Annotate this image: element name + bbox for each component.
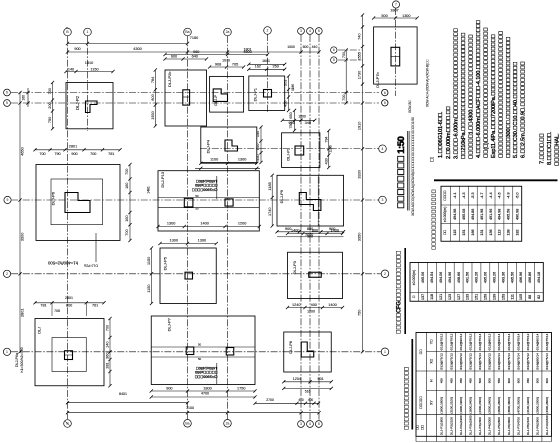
footing DLJ-P9 inner line (317, 175, 319, 226)
svg-text:7: 7 (395, 3, 397, 7)
axis grid vertical lines (68, 8, 396, 420)
axis bubble top 2 (84, 28, 92, 36)
footing DLJ-P7 column A (186, 347, 194, 355)
svg-text:1: 1 (87, 30, 89, 34)
svg-text:1150: 1150 (147, 285, 151, 293)
svg-text:495.06: 495.06 (421, 272, 425, 283)
svg-text:DLJ-P5(2600: DLJ-P5(2600 (497, 417, 501, 436)
callout h1=400/h2=500 (47, 233, 97, 268)
svg-text:2: 2 (6, 272, 8, 276)
svg-text:650: 650 (289, 112, 293, 118)
svg-text:901: 901 (317, 377, 323, 381)
svg-text:908: 908 (215, 63, 221, 67)
svg-text:(4700,3300): (4700,3300) (516, 397, 520, 414)
svg-text:XCW-B: XCW-B (408, 99, 412, 113)
svg-text:790: 790 (54, 152, 60, 156)
svg-text:2a: 2a (226, 422, 230, 426)
svg-text:3330: 3330 (357, 170, 361, 178)
footing DLJ-P5a column (213, 89, 227, 102)
svg-text:3: 3 (382, 198, 384, 202)
footing DLJ-P1b label (287, 148, 291, 161)
svg-text:700: 700 (39, 152, 45, 156)
svg-text:1: 1 (384, 350, 386, 354)
svg-text:1750: 1750 (237, 386, 245, 390)
svg-text:700: 700 (125, 229, 129, 235)
svg-text:88: 88 (528, 295, 532, 299)
footing DLJ-P3 outline (288, 252, 343, 298)
svg-text:4800: 4800 (243, 50, 251, 54)
svg-text:Φ12@75/12: Φ12@75/12 (468, 333, 472, 350)
svg-text:(1900,1900): (1900,1900) (459, 397, 463, 414)
svg-text:4: 4 (309, 29, 311, 33)
svg-text:-4.4: -4.4 (489, 192, 493, 198)
svg-text:(2000,2400): (2000,2400) (488, 397, 492, 414)
svg-text:-5.3: -5.3 (471, 192, 475, 198)
footing DLJ-P7b column (391, 47, 400, 66)
axis bubble top right (392, 1, 399, 8)
footing DLJ-P8 column (301, 342, 314, 357)
footing DLJ-P6 label (51, 191, 56, 205)
svg-text:160: 160 (125, 215, 129, 221)
footing DLJ-P1 column (264, 90, 272, 98)
svg-text:491.96: 491.96 (489, 209, 493, 220)
svg-text::  (419, 396, 423, 409)
footing DLJ-P10 small dims (195, 194, 199, 211)
svg-text::  (416, 424, 420, 430)
svg-text:500: 500 (488, 378, 492, 383)
svg-text:2801: 2801 (20, 309, 24, 317)
svg-text:1300: 1300 (402, 14, 410, 18)
footing DLJ-P6a side note (15, 347, 24, 372)
footing DLJ-P6 outline (36, 165, 120, 241)
svg-text:(2600,2600): (2600,2600) (497, 397, 501, 414)
svg-text:781: 781 (40, 304, 46, 308)
footing DLJ-P1 label (253, 87, 258, 101)
svg-text:496.96: 496.96 (519, 272, 523, 283)
svg-text:550: 550 (497, 378, 501, 383)
svg-text:137: 137 (421, 294, 425, 300)
svg-text:DLJ-P: DLJ-P (214, 95, 218, 106)
svg-text:Φ12@75/12: Φ12@75/12 (449, 333, 453, 350)
footing DLJ-P7 pit note (194, 363, 217, 384)
svg-text:133: 133 (466, 294, 470, 300)
svg-text:1: 1 (6, 350, 8, 354)
svg-text:1400: 1400 (200, 221, 208, 225)
footing DLJ-P2b column (183, 90, 190, 105)
axis bubble right pair 65 (331, 47, 337, 63)
svg-text:9: 9 (7, 198, 9, 202)
svg-text:450: 450 (468, 378, 472, 383)
svg-text:7180: 7180 (190, 36, 198, 40)
svg-text:CFG900: CFG900 (194, 375, 217, 379)
svg-text:750: 750 (289, 122, 293, 128)
svg-text:151: 151 (475, 294, 479, 300)
svg-text:Φ12@75/12: Φ12@75/12 (449, 353, 453, 370)
svg-text:DLJ-P7: DLJ-P7 (167, 317, 172, 331)
svg-text:4650: 4650 (20, 147, 24, 155)
footing DLJ-P6a column (65, 351, 73, 360)
footing DLJ-P8 label (289, 341, 293, 354)
svg-text:600: 600 (516, 378, 520, 383)
axis bubble right pair 65b (382, 89, 388, 106)
svg-text:450: 450 (526, 378, 530, 383)
svg-text:1450x1450: 1450x1450 (196, 366, 218, 370)
svg-text:495.58: 495.58 (507, 209, 511, 220)
footing DLJ-P1b outline (282, 133, 320, 168)
svg-text:DLJ-P9(2900: DLJ-P9(2900 (536, 417, 540, 436)
svg-text:150: 150 (256, 131, 260, 137)
svg-text:1400: 1400 (331, 228, 339, 232)
svg-text:1300: 1300 (238, 157, 246, 161)
svg-text:123: 123 (448, 294, 452, 300)
svg-text:705: 705 (232, 63, 238, 67)
svg-text:DLJ-P7(4700: DLJ-P7(4700 (516, 417, 520, 436)
left dim chain outer (18, 91, 24, 354)
svg-text:4300: 4300 (133, 47, 141, 51)
svg-text:6.2.5m.0.9.: 6.2.5m.0.9. (521, 61, 527, 158)
svg-text:Φ12@75/12: Φ12@75/12 (526, 333, 530, 350)
svg-text:Φ14@90/14: Φ14@90/14 (497, 353, 501, 370)
left dim chain inner (22, 88, 30, 107)
svg-text:Φ12@75/12: Φ12@75/12 (440, 353, 444, 370)
footing DLJ-P7 outline (151, 316, 255, 385)
plan title (396, 117, 415, 216)
svg-text:700: 700 (342, 95, 346, 101)
bottom dim chain 2 (66, 398, 321, 414)
footing DLJ-P6a inner (52, 338, 86, 372)
svg-text:340: 340 (305, 121, 311, 125)
svg-text:Φ12@90/12: Φ12@90/12 (459, 333, 463, 350)
table A grid and data (441, 186, 522, 241)
svg-text:1070: 1070 (222, 59, 230, 63)
svg-text:111: 111 (510, 294, 514, 300)
svg-text:2801: 2801 (65, 296, 73, 300)
footing DLJ-P6 inner (51, 179, 103, 225)
svg-text:450: 450 (459, 378, 463, 383)
svg-text:3: 3 (300, 29, 302, 33)
footing DLJ-P9 dim left (268, 174, 274, 228)
svg-text:DLJ-P6: DLJ-P6 (51, 191, 56, 205)
svg-text:166: 166 (471, 229, 475, 235)
svg-text:4: 4 (309, 422, 311, 426)
svg-text:600: 600 (256, 144, 260, 150)
svg-text:495.06: 495.06 (484, 272, 488, 283)
svg-text:160: 160 (125, 183, 129, 189)
svg-text:494.18: 494.18 (537, 272, 541, 283)
svg-text:Φ14@75/14: Φ14@75/14 (478, 333, 482, 350)
svg-text:Φ14@75/14: Φ14@75/14 (507, 333, 511, 350)
svg-text:300.: 300. (506, 37, 512, 158)
svg-text:700: 700 (106, 325, 110, 331)
svg-text:2700: 2700 (266, 398, 274, 402)
axis bubble left 9 (4, 196, 11, 203)
footing DLJ-P8 dims below (253, 377, 332, 405)
svg-text:151: 151 (462, 229, 466, 235)
svg-text:Φ14@75/14: Φ14@75/14 (545, 333, 549, 350)
svg-text:X: X (430, 358, 434, 363)
svg-text:1700: 1700 (307, 310, 315, 314)
svg-text:HAL.: HAL. (554, 133, 560, 166)
svg-text::: : (430, 156, 436, 162)
axis bubble top 3 (184, 28, 192, 36)
svg-text:DLJ-P3: DLJ-P3 (292, 260, 297, 274)
axis bubble left C (4, 89, 11, 96)
svg-text:1186: 1186 (329, 145, 333, 152)
footing DLJ-P4 right chain (256, 125, 262, 164)
footing DLJ-P7 dim below (150, 386, 257, 398)
footing DLJ-P2 label (75, 95, 80, 110)
svg-text:2: 2 (384, 272, 386, 276)
svg-text:1400: 1400 (328, 303, 336, 307)
axis bubble bottom 1 (64, 420, 72, 428)
axis bubble bottom trio (298, 421, 323, 428)
svg-text:Φ14@75/14: Φ14@75/14 (478, 353, 482, 370)
svg-text:DLJ-P7b: DLJ-P7b (375, 71, 380, 87)
svg-text:494.98: 494.98 (498, 209, 502, 220)
svg-text:Φ14@90/14: Φ14@90/14 (497, 333, 501, 350)
svg-text:400: 400 (298, 398, 304, 402)
svg-text:8401: 8401 (119, 392, 127, 396)
svg-text:200: 200 (48, 102, 52, 108)
footing DLJ-P10 outline (158, 171, 259, 231)
svg-text:400: 400 (311, 303, 317, 307)
svg-text:600: 600 (507, 378, 511, 383)
svg-text:136: 136 (489, 229, 493, 235)
svg-text:(2100,2100): (2100,2100) (449, 397, 453, 414)
svg-text:491.98: 491.98 (480, 209, 484, 220)
footing DLJ-P10 left label (147, 186, 151, 194)
svg-text:182: 182 (515, 229, 519, 235)
svg-text:498.66: 498.66 (457, 272, 461, 283)
svg-text:1.06G101-6.: 1.06G101-6. (438, 111, 444, 158)
svg-text:Φ14@75/14: Φ14@75/14 (516, 353, 520, 370)
svg-text::  (432, 189, 438, 250)
svg-text:XCW-A(XCW-A)(XCW-B): XCW-A(XCW-A)(XCW-B)… (411, 117, 415, 216)
svg-text:493.26: 493.26 (492, 272, 496, 283)
footing DLJ-P2b dim left (151, 68, 157, 127)
svg-text:600: 600 (171, 54, 177, 58)
svg-text:DLJ-P4(2000: DLJ-P4(2000 (488, 417, 492, 436)
svg-text:450: 450 (440, 378, 444, 383)
svg-text:Y: Y (430, 339, 434, 344)
svg-text:784: 784 (151, 77, 155, 83)
svg-text:Φ12@80/12: Φ12@80/12 (488, 333, 492, 350)
svg-text:800: 800 (312, 228, 318, 232)
right dim chain (357, 13, 364, 353)
footing DLJ-P7b dims (342, 9, 419, 105)
footing DLJ-P7 strip lines (151, 347, 255, 357)
svg-text:DLJ-P5: DLJ-P5 (163, 256, 168, 270)
svg-text:1150: 1150 (147, 257, 151, 265)
svg-text:115: 115 (453, 230, 457, 236)
svg-text:1810: 1810 (85, 61, 93, 65)
svg-text:1800: 1800 (203, 386, 211, 390)
svg-text:450: 450 (256, 154, 260, 160)
axis bubble left 2 (3, 270, 10, 277)
table C title (404, 339, 413, 430)
svg-text:3.-6.000m: 3.-6.000m (453, 28, 459, 159)
footing DLJ-P2b outline (165, 70, 207, 126)
svg-text:493.36: 493.36 (501, 272, 505, 283)
svg-text:495.56: 495.56 (510, 272, 514, 283)
footing DLJ-P6 dim right (125, 163, 132, 242)
svg-text:Φ12@75/12: Φ12@75/12 (526, 353, 530, 370)
svg-text:159: 159 (484, 294, 488, 300)
svg-text:Ba: Ba (185, 30, 189, 34)
svg-text:DLJ-P1: DLJ-P1 (287, 148, 291, 161)
svg-text:Φ14@75/14: Φ14@75/14 (507, 353, 511, 370)
axis bubble bottom 3 (224, 420, 232, 428)
table C grid and data (416, 333, 552, 442)
axis bubble right 1 (381, 348, 389, 356)
svg-text:Esp11.4lPa.7200lPa.: Esp11.4lPa.7200lPa. (491, 34, 497, 158)
svg-text:6: 6 (333, 48, 335, 52)
footing DLJ-P5 dim left (147, 246, 153, 305)
svg-text:5: 5 (333, 58, 335, 62)
svg-text:Ba: Ba (185, 422, 189, 426)
svg-text:210kPa.: 210kPa. (461, 33, 467, 159)
svg-text:DLJ-P10: DLJ-P10 (160, 171, 165, 187)
svg-text:3350: 3350 (357, 233, 361, 241)
svg-text:516: 516 (305, 390, 311, 394)
svg-text:(4400,2600): (4400,2600) (545, 397, 549, 414)
svg-text:1730: 1730 (357, 71, 361, 79)
svg-text:750: 750 (48, 117, 52, 123)
axis bubble left 1 (3, 348, 10, 355)
svg-text:x950: x950 (195, 370, 217, 374)
svg-text:708: 708 (54, 309, 60, 313)
svg-text:1240: 1240 (292, 303, 300, 307)
svg-text:113: 113 (498, 230, 502, 236)
svg-text::  (412, 295, 416, 298)
svg-text:494.06: 494.06 (439, 272, 443, 283)
footing DLJ-P4 outline (201, 127, 257, 163)
svg-text:XY: XY (430, 400, 434, 405)
svg-text:281: 281 (106, 362, 110, 368)
footing DLJ-P10 strip lines (158, 198, 259, 208)
notes text block (430, 20, 560, 166)
svg-text:131: 131 (480, 229, 484, 235)
svg-text:450: 450 (284, 101, 288, 107)
axis bubble top 4 (224, 28, 232, 36)
footing DLJ-P6a outline (35, 319, 104, 386)
axis bubble bottom 2 (184, 420, 192, 428)
svg-text:495.08: 495.08 (462, 209, 466, 220)
svg-text:5: 5 (384, 101, 386, 105)
svg-text:Φ12@75/12: Φ12@75/12 (468, 353, 472, 370)
svg-text:DLJ-P1(1600: DLJ-P1(1600 (440, 417, 444, 436)
svg-text:-4.6: -4.6 (498, 192, 502, 198)
top dim chain 2 (66, 45, 321, 54)
top dim chain 3 (163, 50, 269, 56)
svg-text:1204: 1204 (293, 377, 301, 381)
footing DLJ-P1b column (295, 146, 304, 155)
table B title (396, 248, 406, 334)
axis bubble top 1 (64, 27, 72, 36)
svg-text:494.96: 494.96 (448, 272, 452, 283)
svg-text:1185: 1185 (268, 182, 272, 190)
table B grid and data (410, 263, 543, 302)
svg-text:Φ12@90/12: Φ12@90/12 (459, 353, 463, 370)
svg-text:450: 450 (449, 378, 453, 383)
svg-text:160: 160 (22, 95, 26, 101)
svg-text:DLJ-P3(2300: DLJ-P3(2300 (478, 417, 482, 436)
svg-text:DLJ-P1: DLJ-P1 (253, 87, 258, 101)
footing DLJ-P3 dim above (286, 228, 344, 238)
svg-text:DLJ-P6a: DLJ-P6a (15, 353, 19, 367)
footing DLJ-P9 outline (277, 175, 344, 226)
footing DLJ-P5a label (214, 95, 218, 106)
svg-text:Φ14@80/14: Φ14@80/14 (536, 333, 540, 350)
svg-text::  (419, 349, 423, 355)
footing DLJ-P5 label (163, 256, 168, 270)
svg-text:DLJ-P2(2100: DLJ-P2(2100 (449, 417, 453, 436)
footing DLJ-P4 dim (195, 157, 260, 170)
footing DLJ-P7b outline (374, 27, 418, 84)
svg-text:140: 140 (106, 341, 110, 347)
axis bubble top trio (298, 28, 323, 35)
footing DLJ-P10 column A (184, 198, 193, 207)
svg-text:800: 800 (66, 304, 72, 308)
svg-text:496.86: 496.86 (528, 272, 532, 283)
svg-text:1200: 1200 (238, 221, 246, 225)
svg-text:500: 500 (307, 234, 313, 238)
svg-text:4: 4 (382, 147, 384, 151)
svg-text:5: 5 (318, 29, 320, 33)
svg-text:2a: 2a (226, 30, 230, 34)
svg-text:6: 6 (384, 91, 386, 95)
svg-text:900: 900 (74, 47, 80, 51)
svg-text::  (404, 367, 411, 430)
svg-text:4.-6.000mACF-4.100.: 4.-6.000mACF-4.100. (476, 20, 482, 158)
svg-text:700: 700 (48, 88, 52, 94)
footing DLJ-P4 label (206, 139, 211, 153)
svg-text:(2900,2300): (2900,2300) (536, 397, 540, 414)
svg-text:960: 960 (193, 50, 199, 54)
svg-text: 1:50:  1:50 (396, 137, 407, 209)
svg-text:500: 500 (381, 14, 387, 18)
footing DLJ-P2b label (167, 71, 172, 87)
svg-text:50: 50 (195, 207, 199, 211)
svg-text:1910: 1910 (357, 122, 361, 130)
footing DLJ-P10 label (160, 171, 165, 187)
svg-text:-4.7: -4.7 (480, 192, 484, 198)
svg-text:1500: 1500 (287, 45, 295, 49)
svg-text:CFG900: CFG900 (192, 188, 218, 192)
table A title (432, 180, 558, 250)
svg-text:1186: 1186 (291, 84, 295, 91)
svg-text:(2300,2300): (2300,2300) (478, 397, 482, 414)
svg-text:5.C30.C10.40.: 5.C30.C10.40. (513, 62, 519, 158)
axis bubble right 2 (381, 270, 389, 278)
svg-text:139: 139 (492, 294, 496, 300)
svg-text:50: 50 (198, 357, 202, 361)
svg-text:761: 761 (92, 304, 98, 308)
svg-text:494.88: 494.88 (471, 209, 475, 220)
svg-text:1601: 1601 (262, 59, 270, 63)
footing DLJ-P9 dims below (275, 227, 345, 237)
svg-text:2801: 2801 (69, 145, 77, 149)
svg-text:Φ12@75/12: Φ12@75/12 (440, 333, 444, 350)
svg-text:(1600,1900): (1600,1900) (440, 397, 444, 414)
svg-text:490.98: 490.98 (515, 209, 519, 220)
svg-text:1150: 1150 (90, 67, 98, 71)
footing DLJ-P3 column (309, 272, 322, 277)
svg-text:DLJ-P6(3600: DLJ-P6(3600 (507, 417, 511, 436)
svg-text:DLJ-P10(4400: DLJ-P10(4400 (545, 415, 549, 435)
svg-text:DLJ-P9: DLJ-P9 (279, 189, 284, 203)
svg-text:2: 2 (267, 29, 269, 33)
